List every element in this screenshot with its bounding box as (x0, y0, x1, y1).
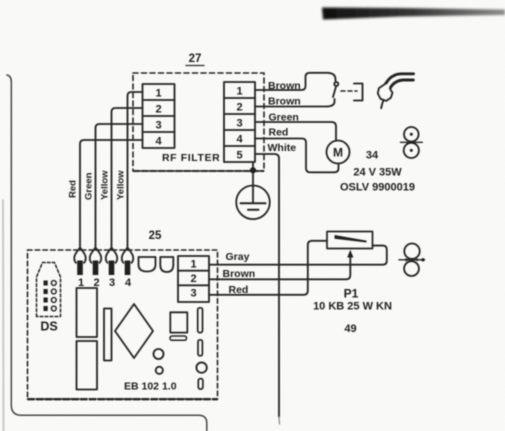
mains connector latch stroke (333, 87, 336, 98)
svg-text:3: 3 (155, 120, 161, 132)
label 49 (344, 323, 356, 335)
svg-text:P1: P1 (344, 287, 359, 301)
svg-text:Green: Green (269, 112, 299, 124)
board component right rect 2 (198, 340, 202, 356)
svg-text:Red: Red (269, 127, 289, 139)
DS connector outline (37, 263, 61, 317)
wire J1 pin4 to board pin1 (red) (80, 140, 143, 250)
label 27 (189, 53, 202, 65)
mains connector contact circle (334, 82, 338, 86)
board component square (170, 312, 187, 332)
wire J2 pin5 white going down page (255, 154, 279, 417)
label Red (vertical) (68, 180, 79, 198)
DS pin dots (44, 281, 57, 312)
wire J1 pin1 to board pin4 (yellow) (128, 92, 143, 250)
connector J3 (board, 3-way) (178, 256, 209, 302)
svg-text:Gray: Gray (226, 251, 250, 263)
svg-text:EB 102 1.0: EB 102 1.0 (124, 381, 177, 393)
wire J1 pin3 to board pin2 (green) (96, 124, 143, 250)
svg-text:2: 2 (190, 273, 196, 285)
svg-text:4: 4 (155, 136, 162, 148)
label P1 (344, 287, 359, 301)
wire J3 pin1 gray to potentiometer right end (209, 246, 387, 265)
label 25 (149, 230, 162, 242)
connector rollers symbol bottom (399, 244, 425, 277)
connector J2 (right, 5-way) (224, 82, 255, 162)
wire J2 pin2 brown to mains connector (255, 99, 335, 107)
board component small bar (170, 336, 187, 340)
svg-text:27: 27 (189, 53, 202, 65)
label Green (269, 112, 299, 124)
label White (268, 142, 297, 154)
svg-text:1: 1 (190, 259, 196, 271)
label Brown (268, 96, 301, 108)
label 34 (366, 150, 379, 162)
wire J2 pin1 brown to mains connector (255, 73, 336, 90)
wire J1 pin2 to board pin3 (yellow) (112, 108, 143, 250)
svg-text:1: 1 (155, 88, 161, 100)
connector J1 (left, 4-way) (143, 84, 175, 148)
svg-text:Brown: Brown (268, 96, 301, 108)
motor M (327, 141, 350, 164)
board pin 4 terminal (122, 248, 133, 275)
svg-text:Green: Green (84, 172, 95, 200)
long routing wire left/bottom (7, 75, 207, 431)
board component rectangle lower (77, 341, 98, 390)
junction dot (250, 167, 256, 173)
svg-text:RF FILTER: RF FILTER (162, 152, 220, 164)
svg-text:1: 1 (236, 86, 242, 98)
label 24 V 35W (353, 167, 402, 179)
scanner black mark top right (322, 8, 505, 20)
protective earth symbol (236, 186, 270, 220)
board pin numbers 1 2 3 4 (78, 277, 132, 289)
board component right rect 1 (198, 308, 203, 333)
mains plug icon with cord (386, 74, 414, 89)
svg-text:Red: Red (68, 180, 79, 198)
label EB 102 1.0 (124, 381, 177, 393)
board dashed enclosure 25 (28, 250, 218, 399)
svg-text:Brown: Brown (268, 80, 301, 92)
board arch component left (139, 257, 156, 272)
board component diamond (115, 304, 153, 358)
svg-text:Brown: Brown (223, 268, 256, 280)
wiper arrowhead (347, 250, 353, 258)
label Gray (226, 251, 250, 263)
svg-text:Red: Red (229, 284, 249, 296)
svg-text:OSLV 9900019: OSLV 9900019 (340, 182, 415, 194)
label 10 KB 25 W KN (313, 301, 392, 313)
label Red (229, 284, 249, 296)
wire J2 pin4 red to motor bottom (255, 139, 339, 173)
board component circle c2 (156, 367, 163, 374)
svg-text:Yellow: Yellow (100, 170, 111, 200)
label Yellow (vertical) (116, 170, 127, 200)
svg-text:49: 49 (344, 323, 356, 335)
wire J2 pin3 green to motor top (255, 122, 336, 141)
svg-text:3: 3 (190, 288, 196, 300)
label RF FILTER (162, 152, 220, 164)
svg-text:Yellow: Yellow (116, 170, 127, 200)
wire J3 pin2 brown to potentiometer wiper (209, 257, 350, 280)
svg-text:3: 3 (109, 277, 115, 289)
label OSLV 9900019 (340, 182, 415, 194)
svg-text:5: 5 (236, 150, 242, 162)
svg-text:DS: DS (40, 320, 57, 334)
svg-text:White: White (268, 142, 297, 154)
board component narrow rectangle (104, 309, 112, 361)
label Red (269, 127, 289, 139)
svg-text:25: 25 (149, 230, 162, 242)
board pin 3 terminal (106, 248, 117, 275)
dashed mating line (341, 90, 357, 92)
svg-text:3: 3 (236, 118, 242, 130)
board component rectangle upper (77, 288, 98, 337)
svg-text:2: 2 (155, 104, 161, 116)
RF filter dashed enclosure 27 (133, 73, 264, 171)
board arch component right (160, 257, 173, 272)
svg-text:4: 4 (236, 134, 243, 146)
label DS (40, 320, 57, 334)
svg-text:34: 34 (366, 150, 379, 162)
board pin 2 terminal (90, 248, 101, 275)
board component right circle (196, 362, 206, 372)
label Brown (268, 80, 301, 92)
svg-text:4: 4 (125, 277, 132, 289)
page edge scan line (2, 200, 5, 431)
board component circle c1 (154, 349, 164, 359)
connector rollers symbol top (401, 127, 423, 158)
wire J3 pin3 red to potentiometer left end (209, 241, 327, 295)
svg-text:24 V 35W: 24 V 35W (353, 167, 402, 179)
board pin 1 terminal (74, 248, 85, 275)
svg-text:M: M (333, 146, 343, 160)
mating receptacle bracket (354, 84, 363, 101)
label Green (vertical) (84, 172, 95, 200)
board component right rect 3 (198, 379, 203, 390)
label Brown (223, 268, 256, 280)
label Yellow (vertical) (100, 170, 111, 200)
svg-text:10 KB 25 W KN: 10 KB 25 W KN (313, 301, 392, 313)
wire J2 pin5 area to protective earth (252, 162, 254, 186)
svg-text:2: 2 (236, 102, 242, 114)
potentiometer P1 (327, 232, 373, 249)
